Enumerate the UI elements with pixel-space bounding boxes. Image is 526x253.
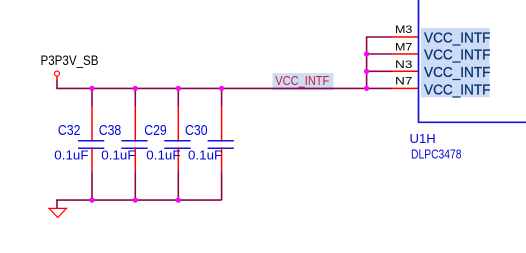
junction dot at C32 bottom — [89, 198, 94, 203]
wire: C32 top branch — [91, 88, 93, 106]
wire: bottom horizontal bus — [56, 199, 221, 201]
wire: C32 bottom branch — [91, 173, 93, 201]
wire: stub to pin M7 — [367, 53, 392, 55]
wire: stem from node down to top bus — [56, 80, 58, 88]
wire: C29 bottom branch — [177, 173, 179, 201]
wire: C30 bottom branch — [221, 173, 223, 201]
pin M3 — [392, 24, 419, 37]
wire: C29 top branch — [177, 88, 179, 106]
pin name highlight VCC_INTF row2 — [421, 45, 490, 63]
junction dot riser/N7 — [364, 86, 369, 91]
junction dot at C30 top — [219, 86, 224, 91]
wire: ground stem — [56, 200, 58, 208]
wire: C30 top branch — [221, 88, 223, 106]
junction dot riser/N3 — [364, 69, 369, 74]
capacitor C30 — [185, 106, 234, 173]
svg-text:0.1uF: 0.1uF — [146, 148, 180, 162]
svg-text:M7: M7 — [395, 42, 412, 54]
svg-text:U1H: U1H — [410, 131, 436, 146]
junction dot at C32 top — [89, 86, 94, 91]
svg-text:VCC_INTF: VCC_INTF — [424, 30, 491, 46]
svg-text:0.1uF: 0.1uF — [188, 148, 222, 162]
pin N3 — [392, 59, 419, 71]
svg-text:VCC_INTF: VCC_INTF — [424, 65, 491, 81]
ground — [49, 208, 67, 217]
pin M7 — [392, 42, 419, 55]
power pin of P3P3V_SB — [56, 76, 58, 80]
svg-text:VCC_INTF: VCC_INTF — [424, 82, 491, 98]
node P3P3V_SB (open circle) — [55, 71, 60, 76]
svg-text:M3: M3 — [395, 24, 412, 36]
pin name highlight VCC_INTF row3 — [421, 63, 490, 81]
pin N7 — [392, 76, 419, 89]
wire: vertical riser to pins — [366, 37, 368, 88]
junction dot at C38 top — [133, 86, 138, 91]
wire: top horizontal bus — [56, 87, 367, 89]
svg-text:0.1uF: 0.1uF — [54, 148, 88, 162]
junction dot at C38 bottom — [133, 198, 138, 203]
net label VCC_INTF highlight — [273, 73, 334, 90]
wire: C38 bottom branch — [134, 173, 136, 201]
capacitor C29 — [144, 106, 190, 173]
svg-text:0.1uF: 0.1uF — [101, 148, 135, 162]
IC U1H DLPC3478 body outline — [419, 0, 526, 122]
svg-text:P3P3V_SB: P3P3V_SB — [41, 53, 99, 68]
svg-text:C30: C30 — [185, 123, 208, 139]
svg-text:VCC_INTF: VCC_INTF — [424, 48, 491, 64]
svg-text:DLPC3478: DLPC3478 — [411, 147, 462, 162]
wire: stub to pin N3 — [367, 70, 392, 72]
junction dot at C29 top — [176, 86, 181, 91]
svg-text:C29: C29 — [144, 123, 167, 139]
svg-text:VCC_INTF: VCC_INTF — [275, 73, 329, 88]
capacitor C38 — [99, 106, 148, 173]
pin name highlight VCC_INTF row4 — [421, 80, 490, 97]
junction dot riser/M7 — [364, 51, 369, 56]
wire: stub to pin N7 — [367, 87, 392, 89]
wire: stub to pin M3 — [366, 36, 392, 38]
pin name highlight VCC_INTF row1 — [421, 28, 490, 46]
capacitor C32 — [54, 106, 104, 173]
svg-text:N3: N3 — [395, 59, 412, 71]
svg-text:N7: N7 — [395, 76, 412, 88]
wire: C38 top branch — [134, 88, 136, 106]
svg-text:C38: C38 — [99, 123, 122, 139]
junction dot at C29 bottom — [176, 198, 181, 203]
svg-text:C32: C32 — [58, 123, 81, 139]
